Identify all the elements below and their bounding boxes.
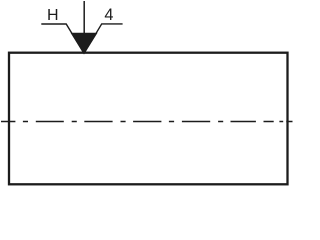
filled triangle (center hole symbol) <box>72 33 97 53</box>
part outline rectangle <box>9 53 288 185</box>
svg-text:H: H <box>47 7 59 24</box>
svg-text:4: 4 <box>104 6 113 24</box>
leader vertical line <box>83 1 85 40</box>
centerline (dash-dot axis) <box>1 121 293 123</box>
right leader (from 4) <box>84 24 123 53</box>
left leader (from H) <box>41 24 84 53</box>
